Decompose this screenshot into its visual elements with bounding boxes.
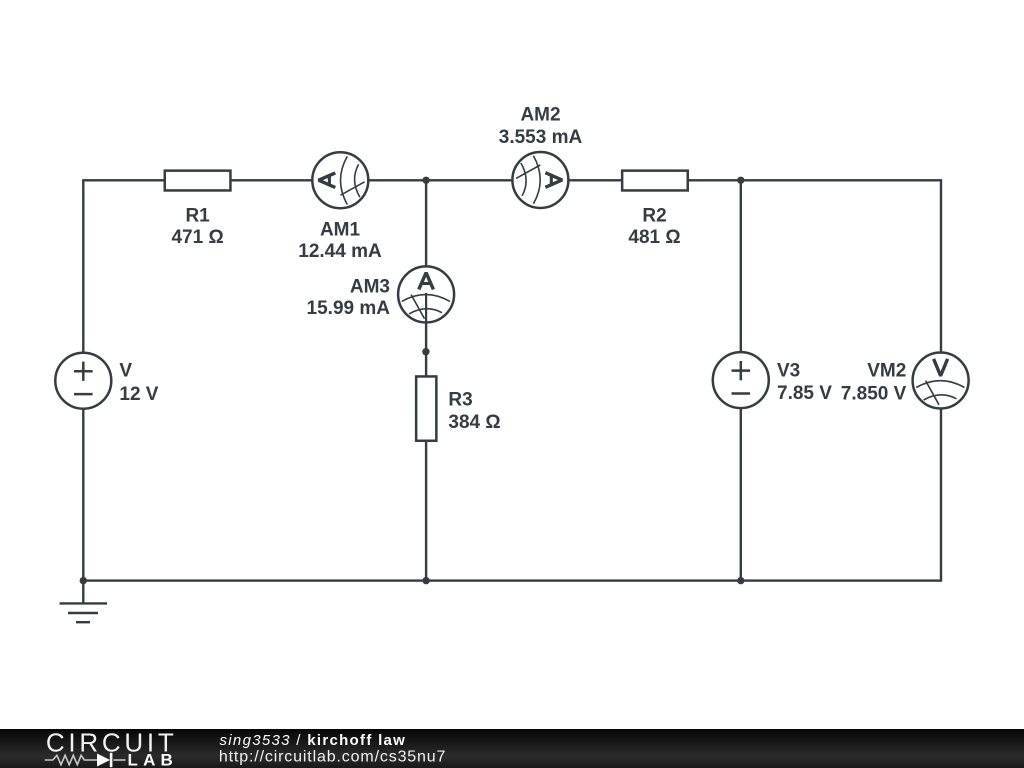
svg-text:R2: R2 xyxy=(642,206,666,227)
bottom right node xyxy=(737,577,744,584)
ground xyxy=(60,603,108,622)
voltage source V3 xyxy=(713,352,769,408)
svg-text:sing3533 / kirchoff law: sing3533 / kirchoff law xyxy=(220,732,407,749)
svg-text:384 Ω: 384 Ω xyxy=(448,412,500,433)
svg-text:3.553 mA: 3.553 mA xyxy=(499,127,583,148)
wire V3 branch xyxy=(740,180,742,580)
resistor R2 xyxy=(622,171,688,191)
label V 12 V xyxy=(119,361,158,405)
svg-text:12 V: 12 V xyxy=(119,384,158,405)
node junction dots xyxy=(80,177,745,585)
svg-text:LAB: LAB xyxy=(128,750,179,768)
voltage source V xyxy=(55,353,111,409)
svg-text:12.44 mA: 12.44 mA xyxy=(298,241,382,262)
ammeter AM2 xyxy=(512,152,568,208)
svg-text:471 Ω: 471 Ω xyxy=(171,227,223,248)
ground node xyxy=(80,577,87,584)
wire outer loop (top net / bottom net / left and right branches) xyxy=(83,180,941,580)
svg-text:V: V xyxy=(119,361,132,382)
svg-text:AM2: AM2 xyxy=(520,104,560,125)
label R3 384 Ω xyxy=(448,390,500,433)
svg-text:V3: V3 xyxy=(777,361,800,382)
wire ground stub xyxy=(82,581,84,604)
svg-text:AM3: AM3 xyxy=(350,277,390,298)
node B (top right) xyxy=(737,177,744,184)
footer bar xyxy=(0,729,1024,768)
label V3 7.85 V xyxy=(777,361,832,405)
svg-text:R1: R1 xyxy=(185,206,210,227)
label R2 481 Ω xyxy=(628,206,680,249)
svg-text:7.85 V: 7.85 V xyxy=(777,383,832,404)
node between AM3 and R3 xyxy=(422,348,429,355)
label R1 471 Ω xyxy=(171,206,223,249)
resistor R3 xyxy=(416,376,436,440)
node A (top middle) xyxy=(422,177,429,184)
svg-text:R3: R3 xyxy=(448,390,472,411)
label AM2 3.553 mA xyxy=(499,104,583,148)
svg-text:http://circuitlab.com/cs35nu7: http://circuitlab.com/cs35nu7 xyxy=(219,748,446,765)
ammeter AM1 xyxy=(312,152,368,208)
svg-text:AM1: AM1 xyxy=(320,220,361,241)
svg-text:15.99 mA: 15.99 mA xyxy=(307,298,391,319)
svg-text:7.850 V: 7.850 V xyxy=(841,383,907,404)
svg-text:481 Ω: 481 Ω xyxy=(628,227,680,248)
label AM3 15.99 mA xyxy=(307,277,391,320)
bottom middle node xyxy=(422,577,429,584)
ammeter AM3 xyxy=(398,266,454,323)
voltmeter VM2 xyxy=(913,353,969,409)
footer logo resistor-diode squiggle xyxy=(45,755,126,764)
label VM2 7.850 V xyxy=(841,361,907,405)
resistor R1 xyxy=(165,171,231,191)
wire middle branch (node A down through AM3, R3 to bottom net) xyxy=(425,180,427,580)
svg-text:VM2: VM2 xyxy=(867,361,906,382)
label AM1 12.44 mA xyxy=(298,220,382,263)
